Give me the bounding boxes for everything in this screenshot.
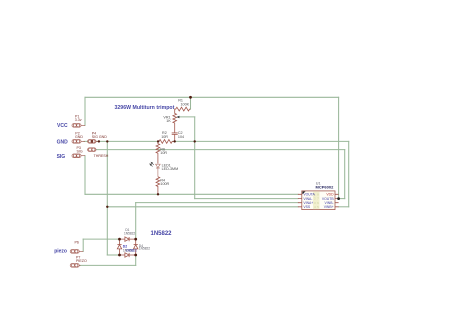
node GND branch: [106, 140, 108, 142]
wire SIG row: [85, 193, 298, 195]
wire VINA- row: [195, 198, 298, 200]
resistor R1: [175, 107, 191, 111]
svg-text:3.3v: 3.3v: [75, 118, 82, 122]
svg-text:MCP6002: MCP6002: [316, 184, 335, 189]
node R4/SIG: [157, 193, 159, 195]
diode D4: [134, 245, 138, 249]
wire P7 up: [135, 255, 137, 265]
wire VINA+ row: [136, 202, 298, 204]
node bridge corners: [118, 238, 121, 241]
wire wiper horizontal: [179, 116, 195, 118]
svg-text:PIEZO: PIEZO: [76, 259, 87, 263]
svg-text:VINB+: VINB+: [324, 205, 334, 209]
wire THRESH to VOUTB: [339, 198, 345, 200]
U1 pin leads: [298, 194, 339, 207]
svg-text:3296W Multiturn trimpot: 3296W Multiturn trimpot: [115, 105, 175, 111]
svg-text:piezo: piezo: [54, 248, 67, 254]
U1 left pin names: [303, 193, 315, 210]
svg-text:104: 104: [178, 135, 184, 139]
pin P2: [72, 140, 85, 144]
node top rail / R1: [189, 96, 192, 99]
svg-text:VCC: VCC: [57, 123, 68, 129]
svg-text:100K: 100K: [180, 102, 189, 106]
wire GND row right: [172, 140, 348, 142]
diode D3: [125, 253, 129, 257]
svg-text:1N5822: 1N5822: [139, 247, 150, 251]
wire to bridge bottom left: [107, 254, 119, 256]
node C2 bottom: [174, 140, 176, 142]
svg-text:SIG: SIG: [77, 149, 83, 153]
diode D1: [125, 237, 129, 241]
trimpot VR1 wiper arrow: [176, 116, 179, 118]
pin P7: [70, 264, 80, 268]
U1 pin numbers: [314, 192, 319, 209]
wire top rail: [85, 96, 339, 98]
node R2/R6: [157, 140, 159, 142]
wire VSS row: [107, 206, 298, 208]
U1 right pin names: [322, 193, 334, 210]
node VSS branch: [106, 206, 108, 208]
wire SIG vertical: [84, 156, 86, 195]
U1 pin1 marker: [302, 191, 305, 194]
pin P6: [70, 250, 83, 254]
wire P6 up: [82, 239, 84, 251]
pin P1: [72, 124, 85, 128]
capacitor C2: [172, 133, 178, 142]
wire THRESH down: [344, 150, 346, 199]
svg-text:10R: 10R: [160, 151, 167, 155]
resistor R4: [156, 177, 160, 195]
wire VINB+ row: [339, 206, 349, 208]
trimpot VR1: [173, 109, 177, 133]
diode bridge frame: [120, 239, 136, 255]
wire VCC up: [84, 97, 86, 125]
pin P4: [88, 140, 99, 144]
wire VINA+ vertical: [135, 203, 137, 240]
diode D2: [117, 245, 121, 249]
svg-text:THRESH: THRESH: [94, 154, 109, 158]
svg-text:SIG GND: SIG GND: [92, 135, 108, 139]
svg-text:1N5822: 1N5822: [126, 248, 137, 252]
svg-text:100R: 100R: [160, 182, 169, 186]
svg-text:LED-3MM: LED-3MM: [162, 167, 179, 171]
op-amp U1 MCP6002: [298, 181, 339, 209]
pin P5 THRESH: [88, 148, 96, 152]
svg-text:10R: 10R: [161, 135, 168, 139]
node VOUTB junction: [337, 197, 340, 200]
wire P7 row: [80, 264, 136, 266]
svg-text:1N5822: 1N5822: [151, 231, 173, 237]
wire GND right down: [348, 141, 350, 206]
wire THRESH row: [96, 149, 345, 151]
LED LED1: [156, 164, 161, 177]
svg-text:SIG: SIG: [57, 154, 66, 160]
wire GND vertical: [106, 141, 108, 255]
svg-text:VSS: VSS: [303, 205, 311, 209]
wire VDD down: [338, 97, 340, 198]
wire R1 to top rail: [190, 97, 192, 109]
resistor R6: [156, 141, 160, 163]
wire wiper vertical: [194, 117, 196, 199]
node P4 tip: [98, 140, 100, 142]
LED1 emission arrows: [150, 162, 154, 166]
svg-text:GND: GND: [75, 135, 83, 139]
node wiper/GND: [194, 140, 196, 142]
wire GND row left: [84, 140, 159, 142]
resistor R2: [158, 140, 175, 144]
junction dots: [98, 96, 196, 257]
svg-text:GND: GND: [57, 139, 69, 145]
wire P6 to bridge: [83, 238, 119, 240]
pin P3: [72, 154, 85, 158]
svg-text:P6: P6: [75, 240, 79, 244]
svg-text:1N5822: 1N5822: [124, 232, 135, 236]
svg-text:1K: 1K: [166, 119, 171, 123]
